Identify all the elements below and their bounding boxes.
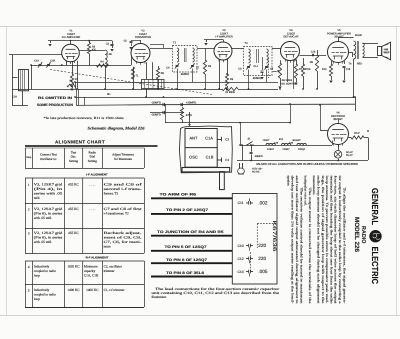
svg-text:AC-DC: AC-DC — [252, 170, 260, 173]
svg-text:1: 1 — [28, 183, 30, 187]
svg-text:ANT: ANT — [190, 135, 199, 140]
svg-text:TO PIN 5 OF 12SQ7: TO PIN 5 OF 12SQ7 — [165, 245, 207, 249]
svg-text:3: 3 — [28, 232, 30, 236]
svg-text:C9: C9 — [270, 68, 274, 71]
svg-text:VALUES OF ALL CAPACITORS ARE I: VALUES OF ALL CAPACITORS ARE IN MFD UNLE… — [256, 162, 358, 166]
svg-text:R10: R10 — [322, 68, 327, 71]
svg-text:12SK7: 12SK7 — [263, 139, 271, 142]
svg-text:12SQ7: 12SQ7 — [298, 148, 306, 151]
svg-text:C7 and C6 of first: C7 and C6 of first — [104, 207, 142, 211]
svg-text:K67/636: K67/636 — [271, 221, 277, 253]
svg-text:SOME PRODUCTION: SOME PRODUCTION — [37, 103, 74, 107]
svg-text:C15: C15 — [346, 68, 351, 71]
svg-text:220: 220 — [258, 256, 266, 261]
svg-text:.005: .005 — [258, 269, 268, 274]
svg-text:470: 470 — [92, 48, 97, 51]
svg-text:-20MFD: -20MFD — [151, 114, 161, 117]
svg-text:C11: C11 — [238, 201, 244, 205]
svg-text:trimmer: trimmer — [104, 269, 116, 273]
svg-text:(Pin 4), in: (Pin 4), in — [34, 187, 63, 191]
svg-text:Setting: Setting — [69, 159, 78, 163]
svg-text:T2: T2 — [173, 42, 177, 45]
svg-text:Step: Step — [26, 156, 32, 159]
svg-text:TO PIN 6 OF 12SQ7: TO PIN 6 OF 12SQ7 — [166, 258, 207, 262]
svg-text:S1: S1 — [247, 138, 251, 141]
svg-text:455 KC: 455 KC — [68, 182, 79, 186]
svg-text:5: 5 — [28, 288, 30, 292]
svg-text:.002: .002 — [258, 200, 268, 205]
svg-text:Inductively: Inductively — [34, 288, 50, 292]
svg-text:C1A: C1A — [205, 135, 213, 140]
svg-text:unit containing C10, C11, C12: unit containing C10, C11, C12 and C13 ar… — [152, 291, 280, 295]
svg-text:RADIO: RADIO — [360, 226, 366, 244]
svg-text:coupled to radio: coupled to radio — [34, 269, 56, 273]
svg-text:R-F ALIGNMENT: R-F ALIGNMENT — [86, 256, 109, 260]
svg-text:1400 KC: 1400 KC — [86, 288, 99, 292]
svg-text:TO PIN 8 OF 35L6: TO PIN 8 OF 35L6 — [166, 271, 204, 275]
svg-text:C5: C5 — [124, 40, 128, 43]
svg-text:coupled to radio: coupled to radio — [34, 292, 56, 296]
svg-text:+20MFD: +20MFD — [186, 101, 196, 104]
svg-text:C13: C13 — [237, 270, 243, 274]
svg-text:loop: loop — [34, 297, 40, 301]
svg-text:R4: R4 — [100, 61, 104, 64]
svg-text:C1A, C1B: C1A, C1B — [84, 274, 99, 278]
svg-text:I-F ALIGNMENT: I-F ALIGNMENT — [86, 173, 108, 177]
svg-text:Setting: Setting — [88, 159, 97, 163]
svg-text:for Maximum: for Maximum — [114, 157, 132, 161]
svg-text:2: 2 — [28, 207, 30, 211]
svg-text:Inductively: Inductively — [34, 265, 50, 269]
svg-text:mum: mum — [104, 245, 111, 249]
svg-text:C2, oscillator: C2, oscillator — [104, 265, 123, 269]
svg-text:Oscillator to:: Oscillator to: — [40, 157, 57, 161]
svg-text:C14: C14 — [253, 65, 258, 68]
svg-text:PILOT: PILOT — [346, 154, 353, 157]
svg-text:R12: R12 — [279, 138, 284, 141]
svg-text:loop: loop — [34, 274, 40, 278]
svg-text:second i-f trans-: second i-f trans- — [104, 187, 142, 191]
svg-text:ALIGNMENT CHART: ALIGNMENT CHART — [55, 140, 105, 145]
svg-text:Recheck adjust-: Recheck adjust- — [104, 231, 142, 235]
svg-text:R9: R9 — [230, 78, 234, 81]
svg-text:TO ARM OF R6: TO ARM OF R6 — [160, 193, 197, 197]
svg-text:i-f transformer, T2: i-f transformer, T2 — [104, 211, 129, 215]
svg-text:12SA7: 12SA7 — [267, 148, 275, 151]
svg-text:L2B: L2B — [107, 53, 112, 56]
svg-text:(Pin 8), in series: (Pin 8), in series — [34, 236, 63, 240]
svg-text:T3: T3 — [244, 42, 248, 45]
svg-text:R5: R5 — [161, 72, 165, 75]
svg-text:4: 4 — [28, 265, 30, 269]
svg-text:C6: C6 — [166, 67, 170, 70]
svg-text:illustration.: illustration. — [152, 295, 167, 299]
svg-text:B+: B+ — [107, 92, 111, 96]
svg-text:with .05 mfd.: with .05 mfd. — [34, 240, 52, 244]
svg-text:T1: T1 — [136, 75, 140, 78]
svg-text:R1 OMITTED IN: R1 OMITTED IN — [38, 96, 73, 100]
svg-text:former, T3: former, T3 — [104, 191, 119, 195]
svg-text:R2: R2 — [75, 78, 79, 81]
svg-text:4700: 4700 — [186, 114, 192, 117]
svg-text:C7: C7 — [196, 67, 200, 70]
svg-text:C1, r-f trimmer: C1, r-f trimmer — [104, 288, 126, 292]
svg-text:22 MEG: 22 MEG — [225, 91, 235, 94]
svg-text:C1A: C1A — [34, 60, 39, 63]
svg-text:R5: R5 — [208, 65, 212, 68]
svg-text:.05MFD: .05MFD — [254, 155, 263, 158]
svg-text:. . . .: . . . . — [89, 207, 95, 211]
svg-text:455KC: 455KC — [181, 72, 190, 76]
svg-text:C16: C16 — [311, 50, 316, 53]
svg-text:C10: C10 — [237, 244, 243, 248]
svg-text:455 KC: 455 KC — [68, 231, 79, 235]
svg-text:R-F AMPLIFIER: R-F AMPLIFIER — [62, 36, 81, 39]
svg-text:455KC: 455KC — [253, 76, 262, 80]
svg-text:GENERAL: GENERAL — [370, 188, 380, 226]
svg-text:MODEL 226: MODEL 226 — [353, 217, 360, 253]
svg-text:mfd.: mfd. — [34, 196, 40, 200]
svg-text:T4: T4 — [349, 63, 353, 66]
svg-text:CONVERTER: CONVERTER — [135, 36, 151, 39]
svg-text:C3: C3 — [106, 42, 110, 45]
svg-text:speaker.: speaker. — [286, 176, 290, 187]
svg-text:220: 220 — [258, 243, 266, 248]
svg-text:1620 KC: 1620 KC — [67, 265, 80, 269]
svg-text:C1B: C1B — [50, 60, 55, 63]
svg-text:TO PIN 2 OF 12SQ7: TO PIN 2 OF 12SQ7 — [166, 208, 208, 212]
svg-text:455 KC: 455 KC — [68, 207, 79, 211]
svg-text:Minimum: Minimum — [84, 265, 98, 269]
svg-text:TO JUNCTION OF R4 AND R5: TO JUNCTION OF R4 AND R5 — [157, 230, 224, 234]
svg-text:C1: C1 — [225, 158, 229, 162]
svg-text:develop not more than 1½ volts: develop not more than 1½ volts output me… — [291, 176, 295, 304]
svg-text:C1B: C1B — [206, 154, 214, 159]
svg-text:470K: 470K — [305, 68, 311, 71]
svg-text:series with .05: series with .05 — [34, 191, 63, 195]
svg-text:V3, 12SK7 grid: V3, 12SK7 grid — [34, 182, 63, 186]
svg-text:capacity: capacity — [84, 269, 96, 273]
svg-text:C2: C2 — [225, 137, 229, 141]
svg-text:-20MFD: -20MFD — [151, 101, 161, 104]
svg-text:R11*: R11* — [354, 132, 360, 135]
svg-text:(Pin 8), in series: (Pin 8), in series — [34, 211, 63, 215]
svg-text:C7, C6, for maxi-: C7, C6, for maxi- — [104, 240, 142, 244]
svg-text:12SK7: 12SK7 — [282, 148, 290, 151]
svg-text:I-F AMPLIFIER: I-F AMPLIFIER — [215, 36, 233, 39]
svg-text:NO.47: NO.47 — [346, 151, 353, 154]
svg-text:C9 and C8 of: C9 and C8 of — [104, 182, 144, 186]
svg-text:OSC: OSC — [189, 154, 198, 159]
svg-text:*In late production receivers,: *In late production receivers, R11 is 15… — [44, 116, 125, 120]
svg-text:C18: C18 — [274, 142, 279, 145]
svg-text:with .05 mfd.: with .05 mfd. — [34, 216, 52, 220]
svg-text:C12: C12 — [237, 257, 243, 261]
svg-text:35L6GT: 35L6GT — [292, 139, 301, 142]
svg-text:Schematic diagram, Model 226: Schematic diagram, Model 226 — [88, 125, 145, 130]
svg-text:C19: C19 — [289, 142, 294, 145]
svg-text:. . . .: . . . . — [89, 182, 95, 186]
svg-text:V2, 12SA7 grid: V2, 12SA7 grid — [34, 207, 63, 211]
svg-text:C8: C8 — [238, 68, 242, 71]
svg-text:BLUE: BLUE — [355, 34, 362, 37]
svg-text:R8: R8 — [310, 61, 314, 64]
svg-text:DET-AVC-AF: DET-AVC-AF — [283, 36, 299, 39]
svg-text:1400 KC: 1400 KC — [67, 288, 80, 292]
svg-text:L2A: L2A — [12, 96, 17, 99]
svg-text:P.M.: P.M. — [384, 49, 389, 52]
svg-text:ment of C9, C8,: ment of C9, C8, — [104, 236, 142, 240]
svg-text:SPKR: SPKR — [384, 51, 390, 54]
svg-text:RED: RED — [357, 63, 362, 66]
svg-text:V2, 12SA7 grid: V2, 12SA7 grid — [34, 231, 63, 235]
svg-text:ELECTRIC: ELECTRIC — [370, 247, 380, 285]
